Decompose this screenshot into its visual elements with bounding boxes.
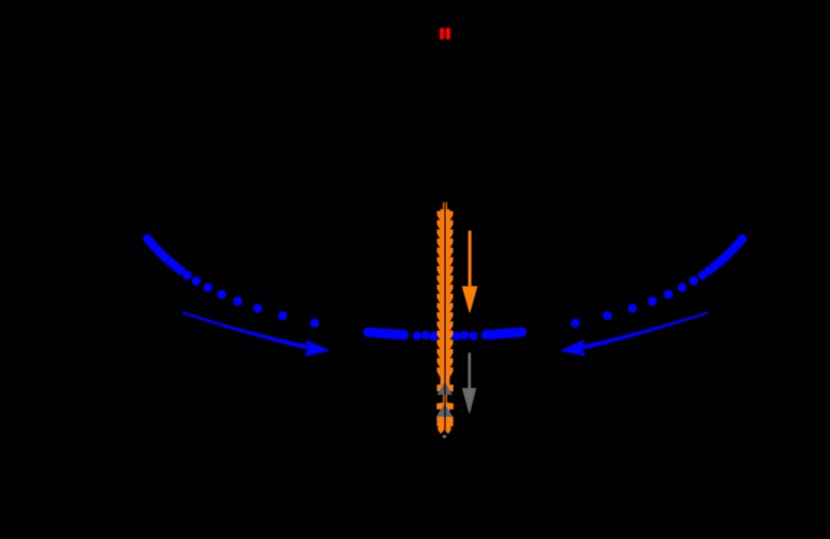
gray up-triangle marker 1 [438, 381, 453, 395]
red title mark [440, 28, 450, 39]
gray speck below column [443, 436, 446, 438]
right trajectory dots (descending branch) [571, 235, 746, 328]
blue annotation arrow right (flow toward center) [561, 312, 708, 356]
right slow-manifold dot cluster [452, 331, 522, 340]
gray up-triangle marker 2 [437, 403, 453, 417]
orange down-arrow marker column (fast direction x=0) [437, 203, 453, 434]
blue annotation arrow left (flow toward center) [183, 312, 330, 356]
left trajectory dots (descending branch) [143, 235, 318, 328]
orange annotation arrow (fast collapse, above manifold) [462, 231, 477, 313]
left slow-manifold dot cluster [368, 331, 438, 340]
black nullcline line over column [444, 202, 446, 438]
gray annotation arrow (below manifold) [462, 353, 476, 414]
